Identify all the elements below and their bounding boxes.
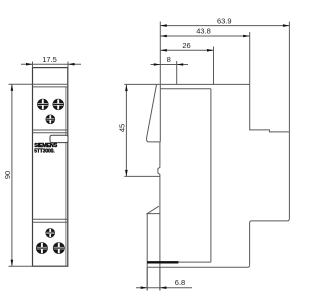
side view rail release clip triangle [147, 206, 160, 213]
side view inner body bottom line [147, 261, 211, 263]
front view bottom terminal double line [33, 218, 69, 220]
screw terminal top-center small [46, 115, 56, 125]
screw terminal top-right [53, 99, 64, 110]
front view mid separation double line [33, 129, 69, 131]
dimension 43.8 [160, 32, 249, 84]
svg-text:63.9: 63.9 [217, 17, 232, 26]
svg-text:90: 90 [3, 171, 12, 179]
svg-text:8: 8 [167, 55, 171, 64]
svg-text:45: 45 [117, 124, 126, 132]
label window [50, 135, 68, 142]
front view top cap separation double line [9, 83, 69, 85]
screw terminal top-left [37, 99, 48, 110]
svg-text:26: 26 [182, 41, 190, 50]
svg-text:6.8: 6.8 [175, 278, 185, 287]
dimension 17.5 width [21, 62, 81, 68]
dimension 63.9 depth [160, 22, 289, 142]
side view thick rail segment [147, 261, 178, 263]
dimension 90 height [9, 84, 33, 266]
svg-text:17.5: 17.5 [42, 55, 57, 64]
dimension 6.8 [136, 267, 192, 290]
side view bottom-front left edge [146, 214, 148, 291]
screw terminal bottom-center small [45, 228, 55, 238]
side view inner body top line [160, 88, 211, 90]
svg-text:43.8: 43.8 [196, 26, 211, 35]
dimension 8 [151, 61, 189, 84]
svg-text:5TT3000.: 5TT3000. [34, 149, 55, 155]
dimension 45 front height [124, 85, 160, 177]
side view inner body right line [210, 89, 212, 262]
front view inner right seam line [65, 87, 67, 266]
side view slanted front cover [147, 85, 160, 142]
side view back edge [250, 132, 290, 265]
front view outline [33, 68, 68, 267]
side view rear top notch edge [250, 84, 290, 131]
dimension 26 [160, 47, 213, 85]
screw terminal bottom-right [53, 242, 65, 254]
side view bottom edge [147, 265, 249, 267]
side view front edge with step notch [158, 142, 160, 290]
side view top edge [124, 83, 250, 85]
screw terminal bottom-left [36, 242, 48, 254]
